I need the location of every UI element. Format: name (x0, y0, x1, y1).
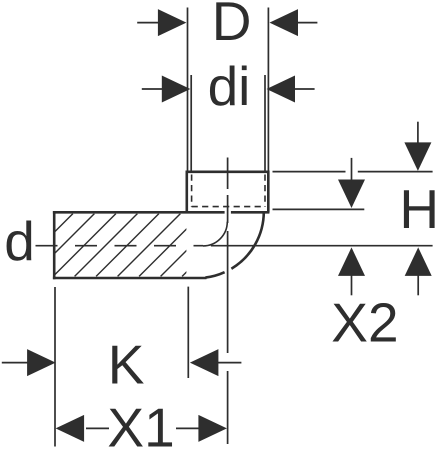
dimension X2: top down-arrow (338, 158, 365, 208)
extension line di left (190, 75, 192, 171)
svg-text:X2: X2 (331, 291, 398, 353)
dimension X2: bottom up-arrow (338, 247, 365, 295)
outer bend arc (upper piece) (231, 212, 263, 269)
dimension di: left arrow (142, 76, 191, 103)
svg-text:di: di (208, 55, 251, 117)
pipe body outline (53, 172, 270, 279)
outer bend arc (lower piece) (205, 272, 224, 277)
dimension X1: right arrow (176, 415, 227, 442)
extension line D right (267, 8, 269, 171)
svg-text:d: d (4, 210, 35, 272)
svg-text:D: D (212, 0, 252, 52)
dimension di: right arrow (267, 76, 315, 103)
bend axis centerline arc (203, 222, 227, 246)
top edge of pipe / socket bottom (53, 211, 270, 214)
extension line socket bottom (X2 reference) (273, 208, 365, 210)
extension line di right (264, 75, 266, 171)
dimension D: left arrow (137, 9, 186, 36)
svg-text:K: K (108, 333, 145, 395)
svg-text:X1: X1 (107, 397, 174, 450)
socket inner dashed lines (192, 175, 265, 207)
horizontal centerline right (solid extension) (211, 245, 433, 247)
extension line socket top (H reference) (273, 171, 433, 173)
dimension K: left arrow (2, 349, 56, 376)
dimension K: right arrow (190, 349, 242, 376)
extension line D left (187, 8, 189, 171)
left edge of pipe (53, 211, 56, 279)
dimension D: right arrow (270, 9, 318, 36)
horizontal centerline (dashed) (36, 245, 204, 247)
bottom edge of pipe (53, 277, 207, 280)
extension line branch left (K reference) (187, 287, 189, 378)
extension line left end (K/X1 reference) (54, 287, 56, 447)
dimension X1: left arrow (56, 415, 109, 442)
vertical centerline (dashed segments) (227, 158, 229, 445)
dimension H: bottom up-arrow (405, 247, 432, 295)
socket outline (187, 172, 268, 213)
hatching of pipe body section (0, 214, 245, 277)
svg-text:H: H (399, 178, 439, 240)
dimension H: top down-arrow (404, 122, 431, 171)
